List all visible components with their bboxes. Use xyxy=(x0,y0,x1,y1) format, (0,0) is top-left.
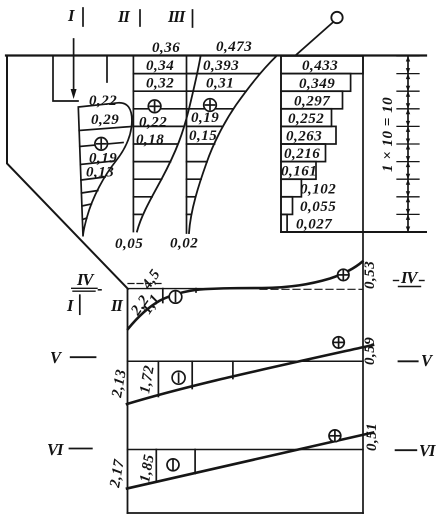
svg-text:0,05: 0,05 xyxy=(115,236,143,252)
bar 0,161 xyxy=(281,162,316,180)
svg-text:0,393: 0,393 xyxy=(203,58,239,74)
VI left dash xyxy=(70,448,92,450)
svg-text:0,473: 0,473 xyxy=(216,39,252,55)
row IV tick 2 xyxy=(195,289,197,292)
tick at column I top xyxy=(106,56,108,82)
bar 0,433 xyxy=(281,56,363,74)
lower panel bottom edge xyxy=(128,512,364,514)
column II row line 9 xyxy=(133,213,141,215)
dimension ticks xyxy=(397,55,419,57)
step outline xyxy=(53,56,78,101)
column II row line 8 xyxy=(133,196,152,198)
svg-text:0,34: 0,34 xyxy=(146,58,174,74)
diagram I hatch 5 xyxy=(82,191,98,194)
svg-text:II: II xyxy=(117,7,130,26)
column III row line 2 xyxy=(187,90,247,92)
centroid mark II xyxy=(148,100,161,113)
diagram I hatch 6 xyxy=(82,204,91,206)
VI right dash xyxy=(396,449,417,451)
diagram I hatch 3 xyxy=(80,161,113,165)
svg-text:III: III xyxy=(167,7,186,26)
column III row line 7 xyxy=(187,178,202,180)
column III row line 1 xyxy=(187,73,260,75)
row IV tick 1 xyxy=(162,289,164,303)
column II row line 2 xyxy=(133,90,193,92)
svg-text:0,22: 0,22 xyxy=(139,115,167,131)
svg-text:0,31: 0,31 xyxy=(206,76,234,92)
diagram I outline xyxy=(78,103,132,237)
right column bottom line xyxy=(281,231,426,233)
svg-text:0,18: 0,18 xyxy=(136,132,164,148)
column III row line 5 xyxy=(187,143,215,145)
diagram I hatch 2 xyxy=(80,143,123,147)
right column axis xyxy=(280,56,282,232)
row V tick 3 xyxy=(232,361,234,378)
row VI tick 2 xyxy=(194,450,196,474)
column II axis xyxy=(132,56,134,232)
row V top line xyxy=(128,360,364,362)
svg-text:0,15: 0,15 xyxy=(189,128,217,144)
bar 0,102 xyxy=(281,179,301,197)
pointer line xyxy=(296,22,333,55)
column II row line 5 xyxy=(133,143,177,145)
svg-text:0,32: 0,32 xyxy=(146,76,174,92)
svg-text:0,263: 0,263 xyxy=(286,129,322,145)
svg-text:II: II xyxy=(110,296,123,315)
IV right underline xyxy=(399,286,421,288)
bar 0,297 xyxy=(281,91,343,109)
column III row line 3 xyxy=(187,108,234,110)
IV right dashes xyxy=(394,280,399,282)
svg-text:0,59: 0,59 xyxy=(362,337,378,365)
svg-text:0,53: 0,53 xyxy=(362,261,378,289)
svg-text:0,19: 0,19 xyxy=(191,110,219,126)
dimension arrowheads xyxy=(406,56,410,232)
svg-text:VI: VI xyxy=(47,440,64,459)
svg-text:0,102: 0,102 xyxy=(300,182,336,198)
V left dash xyxy=(71,356,96,358)
svg-text:0,29: 0,29 xyxy=(91,112,119,128)
section tick II xyxy=(139,10,141,26)
bar 0,216 xyxy=(281,144,326,162)
diagram I hatch 7 xyxy=(83,218,87,220)
column III row line 6 xyxy=(187,161,208,163)
svg-text:0,13: 0,13 xyxy=(86,165,114,181)
bar 0,055 xyxy=(281,197,293,215)
bar 0,027 xyxy=(281,214,287,232)
column III envelope xyxy=(189,56,277,233)
svg-text:0,02: 0,02 xyxy=(170,236,198,252)
row IV centroid mark xyxy=(338,269,349,280)
row IV asymptote dashed xyxy=(128,283,163,285)
row IV circle mark xyxy=(169,291,182,304)
row IV base line xyxy=(128,288,261,290)
bunker left wall xyxy=(7,56,128,289)
tick lower I xyxy=(79,295,81,314)
dimension chain line xyxy=(407,56,409,232)
column II row line 7 xyxy=(133,178,161,180)
svg-text:VI: VI xyxy=(419,441,436,460)
centroid mark I xyxy=(95,138,108,151)
centroid mark III xyxy=(204,99,217,112)
IV underline xyxy=(72,287,97,289)
row VI circle mark xyxy=(167,459,179,471)
column II row line 1 xyxy=(133,73,197,75)
bar 0,349 xyxy=(281,74,351,92)
row IV pressure curve xyxy=(128,262,363,330)
V right dash xyxy=(399,360,418,362)
lower panel left edge xyxy=(127,289,129,513)
svg-text:0,216: 0,216 xyxy=(284,146,320,162)
svg-text:0,252: 0,252 xyxy=(288,111,324,127)
svg-text:0,055: 0,055 xyxy=(300,199,336,215)
svg-text:0,433: 0,433 xyxy=(302,58,338,74)
column II row line 4 xyxy=(133,125,183,127)
row VI centroid mark xyxy=(329,430,341,442)
bar 0,252 xyxy=(281,109,332,127)
column III axis xyxy=(186,56,188,233)
right edge line xyxy=(362,56,364,513)
pointer circle xyxy=(331,12,342,23)
column III row line 4 xyxy=(187,125,223,127)
svg-text:1 × 10 = 10: 1 × 10 = 10 xyxy=(380,97,396,172)
svg-text:0,161: 0,161 xyxy=(281,164,317,180)
column III row line 8 xyxy=(187,196,196,198)
column III row line 9 xyxy=(187,213,191,215)
svg-text:0,36: 0,36 xyxy=(152,40,180,56)
top surface line xyxy=(6,54,426,56)
svg-text:0,51: 0,51 xyxy=(364,423,380,451)
svg-text:0,297: 0,297 xyxy=(294,94,330,110)
dot after IV xyxy=(99,289,102,291)
diagram I hatch 1 xyxy=(79,127,131,131)
section tick III xyxy=(192,10,194,27)
bar 0,263 xyxy=(281,126,336,144)
diagram I hatch 4 xyxy=(81,177,105,180)
svg-text:0,349: 0,349 xyxy=(299,76,335,92)
section tick I xyxy=(82,8,84,26)
row VI diagonal xyxy=(127,433,373,489)
column II envelope xyxy=(137,56,201,232)
row V circle mark xyxy=(172,371,185,384)
svg-text:0,027: 0,027 xyxy=(296,217,332,233)
column II row line 3 xyxy=(133,108,188,110)
column II row line 6 xyxy=(133,161,170,163)
row V diagonal xyxy=(127,345,373,404)
row V centroid mark xyxy=(333,337,344,348)
row V tick 1 xyxy=(157,361,159,396)
row VI top line xyxy=(128,449,364,451)
row V tick 2 xyxy=(191,361,193,388)
svg-text:0,22: 0,22 xyxy=(89,93,117,109)
load arrow xyxy=(73,39,75,92)
row VI tick 1 xyxy=(155,450,157,483)
